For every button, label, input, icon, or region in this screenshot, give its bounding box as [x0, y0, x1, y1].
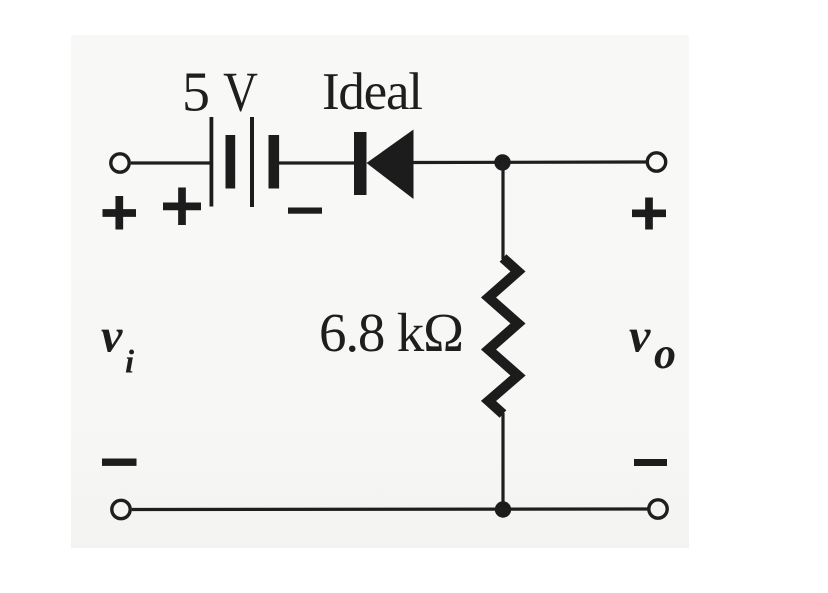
- svg-text:6.8 kΩ: 6.8 kΩ: [319, 302, 464, 363]
- svg-text:v: v: [101, 310, 123, 363]
- svg-text:o: o: [654, 329, 676, 378]
- plus sign output: [632, 198, 666, 230]
- svg-text:5: 5: [182, 62, 210, 124]
- terminal top-right: [647, 153, 665, 171]
- terminal top-left: [111, 154, 129, 172]
- minus sign input: [102, 459, 137, 466]
- wire bottom: [132, 507, 648, 511]
- svg-text:V: V: [223, 61, 258, 123]
- wire battery to diode: [279, 161, 355, 164]
- terminal bottom-left: [112, 500, 130, 518]
- wire diode to output: [414, 160, 647, 164]
- terminal bottom-right: [649, 500, 667, 518]
- plus sign battery: [163, 188, 201, 226]
- diode D1 ideal: [354, 130, 414, 200]
- wire junction to resistor: [501, 162, 504, 259]
- wire input to battery: [131, 161, 210, 164]
- svg-text:i: i: [125, 345, 135, 381]
- node top junction: [494, 154, 510, 170]
- minus sign output: [634, 459, 667, 466]
- battery E 5V: [210, 117, 280, 207]
- svg-text:v: v: [629, 310, 651, 363]
- wire resistor to bottom junction: [501, 413, 504, 510]
- minus sign battery: [288, 208, 322, 214]
- svg-text:Ideal: Ideal: [322, 63, 423, 121]
- plus sign input: [103, 196, 137, 230]
- resistor R1 6.8k zigzag: [489, 258, 519, 414]
- node bottom junction: [495, 501, 511, 517]
